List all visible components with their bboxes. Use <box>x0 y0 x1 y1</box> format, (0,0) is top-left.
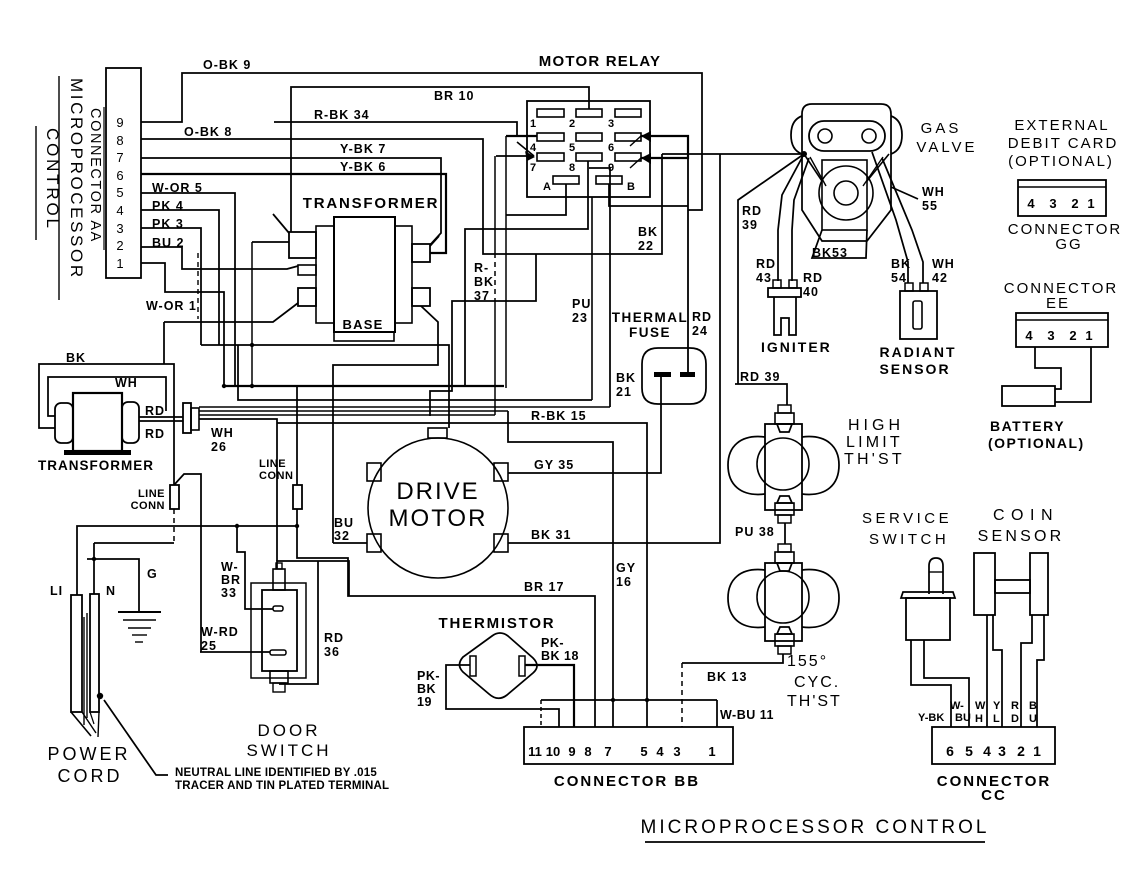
svg-text:B: B <box>627 181 635 193</box>
svg-text:O-BK 9: O-BK 9 <box>203 58 251 72</box>
svg-text:BATTERY: BATTERY <box>990 418 1065 434</box>
svg-text:9: 9 <box>116 115 123 130</box>
svg-text:BU 2: BU 2 <box>152 236 184 250</box>
svg-text:25: 25 <box>201 639 217 653</box>
wire Y-BK 6 <box>141 174 446 253</box>
svg-text:BK 31: BK 31 <box>531 528 571 542</box>
neutral tracer dot <box>97 693 103 699</box>
svg-text:RADIANT: RADIANT <box>880 344 957 360</box>
wire service switch 1 <box>911 640 951 727</box>
wire BK 13 <box>682 654 783 663</box>
svg-text:PK 4: PK 4 <box>152 199 184 213</box>
wire N <box>93 543 95 594</box>
svg-text:BR: BR <box>221 573 241 587</box>
relay pin 2 <box>576 109 602 117</box>
drive motor tab right-upper <box>494 463 508 481</box>
gas valve ear left <box>791 116 802 154</box>
svg-text:WH: WH <box>922 185 945 199</box>
svg-text:37: 37 <box>474 289 490 303</box>
transformer base left flange <box>316 226 334 323</box>
svg-text:HIGH: HIGH <box>848 417 904 434</box>
svg-text:MICROPROCESSOR: MICROPROCESSOR <box>67 78 86 280</box>
svg-text:SWITCH: SWITCH <box>246 741 331 760</box>
wire PK-BK 19 <box>446 665 559 727</box>
transformer base body <box>334 217 395 332</box>
wire R-BK 15 <box>277 423 647 727</box>
wire bus y415 <box>199 414 495 416</box>
dashed vertical <box>197 253 199 319</box>
svg-text:MICROPROCESSOR CONTROL: MICROPROCESSOR CONTROL <box>641 817 990 838</box>
svg-text:LIMIT: LIMIT <box>846 434 903 451</box>
power cord taper <box>71 712 91 736</box>
drive motor tab left-upper <box>367 463 381 481</box>
wire RD lower <box>139 420 183 422</box>
transformer tab right upper <box>412 244 430 262</box>
svg-text:W-RD: W-RD <box>201 625 239 639</box>
svg-text:CONN: CONN <box>131 500 165 512</box>
svg-text:EE: EE <box>1046 295 1070 312</box>
wire BK 22 chain <box>430 254 536 416</box>
svg-text:1: 1 <box>116 256 123 271</box>
connector GG <box>1018 180 1106 216</box>
wire coin sensor pin4 <box>986 615 988 727</box>
relay jumper pin6 to pin9 <box>641 136 688 158</box>
battery <box>1002 386 1055 406</box>
svg-text:SERVICE: SERVICE <box>862 510 952 527</box>
svg-text:RD: RD <box>692 310 712 324</box>
cyc top cap <box>778 544 791 552</box>
wire EE to battery right <box>1055 347 1091 402</box>
high limit top terminal <box>775 413 794 424</box>
svg-text:R-BK 34: R-BK 34 <box>314 108 370 122</box>
wire gas valve feed <box>662 153 804 155</box>
svg-text:BK: BK <box>638 225 658 239</box>
coin sensor left bar <box>974 553 995 615</box>
svg-text:6: 6 <box>946 743 954 759</box>
svg-text:W-: W- <box>221 560 239 574</box>
svg-text:39: 39 <box>742 218 758 232</box>
svg-text:4: 4 <box>530 142 537 154</box>
wire BK <box>39 364 174 485</box>
svg-text:GAS: GAS <box>921 120 962 137</box>
svg-text:7: 7 <box>530 162 536 174</box>
svg-text:GG: GG <box>1055 236 1082 253</box>
svg-text:4: 4 <box>116 203 123 218</box>
cyc trapezoid bottom <box>777 627 792 634</box>
svg-text:PK-: PK- <box>541 636 564 650</box>
svg-text:6: 6 <box>116 168 123 183</box>
drive motor tab left-lower <box>367 534 381 552</box>
svg-text:CONN: CONN <box>259 470 293 482</box>
wire RD 36 <box>279 561 318 684</box>
relay pin7 diagonal <box>517 142 534 156</box>
svg-text:N: N <box>106 584 116 598</box>
svg-text:B: B <box>1029 700 1037 712</box>
wire RD 39 from valve <box>738 154 804 384</box>
svg-text:155°: 155° <box>787 653 828 670</box>
connector EE <box>1016 313 1108 347</box>
svg-text:SENSOR: SENSOR <box>978 528 1065 545</box>
gas valve eye right <box>862 129 876 143</box>
line conn 2 <box>293 485 302 509</box>
svg-text:11: 11 <box>528 744 542 759</box>
connector BB <box>524 727 733 764</box>
drive motor tab top <box>428 428 447 438</box>
gas valve outer body <box>802 104 891 241</box>
svg-text:TRACER AND TIN PLATED TERMINAL: TRACER AND TIN PLATED TERMINAL <box>175 780 389 792</box>
svg-text:NEUTRAL LINE IDENTIFIED BY .01: NEUTRAL LINE IDENTIFIED BY .015 <box>175 767 377 779</box>
svg-text:THERMISTOR: THERMISTOR <box>439 615 556 632</box>
svg-text:BK: BK <box>616 371 636 385</box>
drive motor tab right-lower <box>494 534 508 552</box>
wire PK 3 <box>141 228 201 345</box>
svg-text:2: 2 <box>116 238 123 253</box>
svg-text:MOTOR: MOTOR <box>389 505 488 532</box>
svg-text:4: 4 <box>1027 196 1035 211</box>
svg-text:1: 1 <box>530 118 536 130</box>
wire BU 32 <box>333 542 367 544</box>
svg-text:W-OR 1: W-OR 1 <box>146 299 197 313</box>
thermistor body <box>460 633 538 698</box>
svg-text:42: 42 <box>932 271 948 285</box>
svg-text:BR 17: BR 17 <box>524 580 564 594</box>
power cord blade N <box>90 594 99 712</box>
svg-text:PU 38: PU 38 <box>735 525 775 539</box>
gas valve inner rect <box>822 160 867 230</box>
svg-text:GY 35: GY 35 <box>534 458 574 472</box>
wire service switch 2 <box>924 640 969 727</box>
svg-text:TH'ST: TH'ST <box>844 451 905 468</box>
gas valve inner circle <box>834 181 858 205</box>
svg-text:BASE: BASE <box>343 317 384 332</box>
cyc trapezoid top <box>777 563 792 571</box>
relay pin A <box>553 176 579 184</box>
relay pin 8 <box>576 153 602 161</box>
cyc bottom cap <box>778 646 791 654</box>
wire line conn 2 bottom <box>77 526 297 595</box>
transformer base bottom plate <box>334 332 394 341</box>
wire line conn 1 top <box>174 474 201 652</box>
wire Y-BK 7 <box>141 158 441 245</box>
door switch body <box>262 590 297 671</box>
gas valve big circle <box>819 166 873 220</box>
wire bus y419 <box>199 419 277 561</box>
thermal fuse terminal left <box>654 372 671 377</box>
gas valve eye left <box>818 129 832 143</box>
svg-text:BK: BK <box>66 351 86 365</box>
svg-text:PU: PU <box>572 297 591 311</box>
svg-text:BU: BU <box>334 516 354 530</box>
wire relay pin A <box>506 184 566 215</box>
svg-text:2: 2 <box>1017 743 1025 759</box>
svg-text:CONNECTOR BB: CONNECTOR BB <box>554 773 700 790</box>
door switch top neck <box>273 569 285 590</box>
wire relay pin B to node <box>609 184 688 206</box>
transformer tab left middle <box>298 265 316 275</box>
svg-text:CORD: CORD <box>58 766 123 786</box>
svg-text:Y-BK 7: Y-BK 7 <box>340 142 386 156</box>
svg-text:3: 3 <box>1049 196 1056 211</box>
svg-text:A: A <box>543 181 551 193</box>
ground symbol <box>118 611 161 613</box>
svg-text:CC: CC <box>981 787 1007 804</box>
wire transformer left-upper diag <box>273 214 289 233</box>
high limit circle <box>757 438 809 490</box>
svg-text:10: 10 <box>546 744 560 759</box>
wire EE to battery left <box>1035 347 1061 389</box>
svg-text:WH: WH <box>932 257 955 271</box>
transformer base right flange <box>395 226 412 323</box>
svg-text:23: 23 <box>572 311 588 325</box>
svg-text:BK: BK <box>474 275 494 289</box>
cyc bottom terminal <box>775 634 794 646</box>
svg-text:BK: BK <box>417 682 436 696</box>
wire RD upper <box>139 416 183 418</box>
gas valve strap right <box>867 154 889 181</box>
svg-text:19: 19 <box>417 695 432 709</box>
svg-text:W-: W- <box>950 700 964 712</box>
wire vertical x495 <box>494 156 496 253</box>
cyc top terminal <box>775 552 794 563</box>
svg-text:THERMAL: THERMAL <box>612 310 689 325</box>
relay pin 9 <box>615 153 641 161</box>
wire G <box>87 559 139 612</box>
wire radiant lead BK 54 <box>872 152 908 283</box>
svg-text:40: 40 <box>803 285 819 299</box>
door switch bottom neck <box>270 671 288 683</box>
wire bus y345 <box>201 345 449 428</box>
wire RD 39 to high limit <box>735 384 787 405</box>
wire bus y407 <box>199 406 610 408</box>
wire transformer left-lower diag <box>164 303 298 322</box>
wire WH 55 <box>891 187 918 199</box>
svg-text:R-: R- <box>474 261 489 275</box>
svg-text:RD: RD <box>803 271 823 285</box>
relay pin 4 <box>537 133 564 141</box>
svg-text:8: 8 <box>116 133 123 148</box>
svg-text:O-BK 8: O-BK 8 <box>184 125 232 139</box>
wire BK 31 motor <box>508 154 720 543</box>
svg-text:RD: RD <box>324 631 344 645</box>
thermistor terminal left <box>470 656 476 676</box>
line conn 1 <box>170 485 179 509</box>
svg-text:5: 5 <box>640 744 647 759</box>
svg-text:6: 6 <box>608 142 614 154</box>
wire W-RD 25 <box>200 651 270 653</box>
high limit bottom cap <box>778 515 791 523</box>
svg-text:4: 4 <box>1025 328 1033 343</box>
svg-text:RD: RD <box>756 257 776 271</box>
transformer2 left lobe <box>55 403 73 443</box>
svg-text:2: 2 <box>1069 328 1076 343</box>
svg-text:CYC.: CYC. <box>794 674 840 691</box>
igniter terminal caps <box>773 280 781 288</box>
svg-text:IGNITER: IGNITER <box>761 339 832 355</box>
gas valve ear right <box>891 116 902 154</box>
svg-text:8: 8 <box>584 744 591 759</box>
svg-text:PK 3: PK 3 <box>152 217 184 231</box>
svg-text:1: 1 <box>1087 196 1094 211</box>
svg-text:W-BU 11: W-BU 11 <box>720 708 774 722</box>
wire transformer right-upper diag <box>430 236 439 246</box>
high limit wing left <box>728 437 765 495</box>
igniter fork <box>774 297 796 335</box>
wire W-OR 5 <box>141 193 235 386</box>
svg-text:DEBIT CARD: DEBIT CARD <box>1008 135 1119 152</box>
wire BK53 <box>812 230 867 258</box>
svg-text:33: 33 <box>221 586 237 600</box>
svg-text:PK-: PK- <box>417 669 440 683</box>
thermal fuse terminal right <box>680 372 695 377</box>
door switch terminal upper <box>273 606 283 611</box>
gas valve stadium <box>809 121 885 151</box>
svg-text:4: 4 <box>656 744 664 759</box>
relay pin 7 <box>537 153 564 161</box>
relay pin 3 <box>615 109 641 117</box>
high limit top cap <box>778 405 791 413</box>
svg-text:1: 1 <box>708 744 715 759</box>
thermal fuse body <box>642 348 706 404</box>
wire GY 16 <box>508 411 613 727</box>
svg-text:WH: WH <box>211 426 234 440</box>
svg-text:32: 32 <box>334 529 350 543</box>
wire RD 24 drop from relay <box>687 158 689 373</box>
thermistor terminal right <box>519 656 525 676</box>
svg-text:L: L <box>993 713 1000 725</box>
wire bus y386 <box>224 385 504 387</box>
svg-text:36: 36 <box>324 645 340 659</box>
svg-text:CONNECTOR AA: CONNECTOR AA <box>87 108 103 243</box>
svg-text:Y: Y <box>993 700 1001 712</box>
power cord inner lines <box>83 617 85 725</box>
wire tab feed y242 <box>252 241 289 243</box>
wire WH <box>48 377 166 416</box>
svg-text:5: 5 <box>569 142 575 154</box>
svg-text:R: R <box>1011 700 1019 712</box>
cyc wing right <box>802 570 839 628</box>
wire igniter lead RD 40 <box>792 158 809 281</box>
transformer tab left lower <box>298 288 316 306</box>
high limit wing right <box>802 437 839 495</box>
relay pin9 arrow <box>641 153 651 164</box>
svg-text:9: 9 <box>568 744 575 759</box>
svg-text:G: G <box>147 567 158 581</box>
drive motor circle <box>368 438 508 578</box>
svg-text:3: 3 <box>673 744 680 759</box>
svg-text:Y-BK 6: Y-BK 6 <box>340 160 386 174</box>
igniter bar <box>768 288 801 297</box>
cyc wing left <box>728 570 765 628</box>
radiant sensor caps <box>905 283 913 291</box>
junction dots <box>250 343 254 347</box>
wire line conn 2 top <box>296 386 298 485</box>
connector AA <box>106 68 141 278</box>
svg-text:TRANSFORMER: TRANSFORMER <box>303 195 439 212</box>
wire pin8 branch x610 <box>589 168 610 407</box>
svg-text:3: 3 <box>608 118 614 130</box>
svg-text:W: W <box>975 700 986 712</box>
wire BB pin 11 stub <box>540 700 542 727</box>
svg-text:MOTOR RELAY: MOTOR RELAY <box>539 53 661 70</box>
splice connector <box>183 403 191 433</box>
svg-text:RD: RD <box>742 204 762 218</box>
svg-text:BR 10: BR 10 <box>434 89 474 103</box>
radiant sensor body <box>900 291 937 339</box>
wire coin sensor pin3 <box>993 615 1002 727</box>
wire igniter lead RD 43 <box>778 154 804 281</box>
svg-text:DOOR: DOOR <box>258 721 321 740</box>
svg-text:(OPTIONAL): (OPTIONAL) <box>988 435 1085 451</box>
neutral note leader <box>104 700 168 775</box>
svg-text:VALVE: VALVE <box>916 139 977 156</box>
svg-text:U: U <box>1029 713 1037 725</box>
svg-text:2: 2 <box>1071 196 1078 211</box>
wire W-BU 11 <box>716 700 718 727</box>
cyc circle <box>757 571 809 623</box>
svg-text:7: 7 <box>604 744 611 759</box>
svg-text:TH'ST: TH'ST <box>787 693 842 710</box>
wire W-OR 1 <box>141 263 224 386</box>
svg-text:SWITCH: SWITCH <box>869 531 949 548</box>
wire coin sensor pin1 <box>1037 615 1044 727</box>
transformer tab right lower <box>412 288 430 306</box>
svg-text:3: 3 <box>998 743 1006 759</box>
wire line conn 1 bottom dashed <box>173 509 175 543</box>
svg-text:5: 5 <box>965 743 973 759</box>
coin sensor bridge <box>995 580 1030 593</box>
svg-text:21: 21 <box>616 385 632 399</box>
svg-text:RD: RD <box>145 427 165 441</box>
connector CC <box>932 727 1055 764</box>
wire BR 17 <box>297 509 595 727</box>
wire PK-BK 18 <box>525 665 574 727</box>
wire coin sensor pin2 <box>1021 615 1032 727</box>
wire R-BK 34 <box>274 122 517 136</box>
high limit trapezoid bottom <box>777 496 792 503</box>
svg-text:BK 13: BK 13 <box>707 670 747 684</box>
wire transformer right-lower diag <box>333 306 438 543</box>
svg-text:3: 3 <box>116 221 123 236</box>
svg-text:2: 2 <box>569 118 575 130</box>
relay pin B <box>596 176 622 184</box>
svg-text:16: 16 <box>616 575 632 589</box>
transformer2 core <box>73 393 122 451</box>
wire relay pin 7 feed <box>496 155 527 157</box>
svg-text:WH: WH <box>115 376 138 390</box>
svg-text:BU: BU <box>955 712 971 724</box>
svg-text:FUSE: FUSE <box>629 325 671 340</box>
svg-text:BK: BK <box>891 257 911 271</box>
wire PU 38 <box>784 523 786 544</box>
wire relay pin 8 down <box>465 161 588 386</box>
wire PU 23 <box>591 197 593 400</box>
power cord blade LI <box>71 595 82 712</box>
motor relay body <box>527 101 650 197</box>
gas valve strap left <box>804 154 822 181</box>
wire bus y400 <box>238 345 592 400</box>
high limit bottom terminal <box>775 503 794 515</box>
svg-text:LINE: LINE <box>259 458 286 470</box>
wire O-BK 8 <box>141 139 662 254</box>
svg-text:TRANSFORMER: TRANSFORMER <box>38 458 154 473</box>
svg-text:3: 3 <box>1047 328 1054 343</box>
svg-text:D: D <box>1011 713 1019 725</box>
radiant sensor inner <box>913 301 922 329</box>
svg-text:BK 18: BK 18 <box>541 649 579 663</box>
service switch flange <box>901 592 955 598</box>
cyc body <box>765 563 802 641</box>
service switch plunger <box>929 558 943 594</box>
